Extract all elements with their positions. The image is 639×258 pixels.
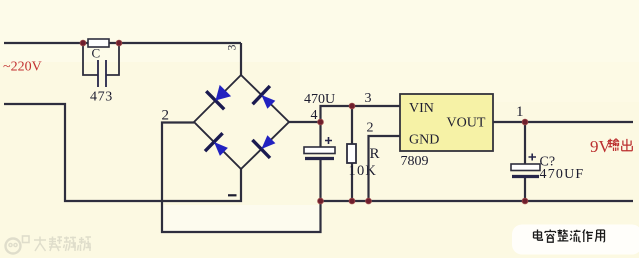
wire: bottom lead [351,163,353,201]
junction dot [349,103,355,109]
glyph 用 [595,230,604,242]
watermark logo [6,236,92,254]
svg-text:GND: GND [409,133,439,148]
svg-text:9V: 9V [590,137,612,156]
resistor R 10K [347,106,380,201]
wire: node 4 up to VIN pin [321,106,401,122]
junction dot [366,198,372,204]
negative plate [305,157,334,160]
body [347,144,356,163]
wire: node 2 branch to ground rail [162,123,321,233]
regulator U1 7809 [400,94,493,169]
junction dot [80,40,86,46]
positive plate [304,147,335,154]
series body rectangle [88,39,109,47]
glyph 出 [622,139,633,151]
wire: bridge AC top lead [240,43,242,75]
glyph 流 [570,230,581,242]
svg-text:470UF: 470UF [540,167,585,182]
svg-text:~220V: ~220V [3,60,42,75]
positive plate [511,164,540,171]
junction dot [116,40,122,46]
pin label 1 (bridge bottom, rotated digit shown as dash) [228,194,237,196]
capacitor C2 470U (electrolytic) [304,122,335,201]
diode D2 (top-right edge) [253,86,276,109]
plus mark [325,137,332,144]
wire: right drop from junction [106,43,119,75]
wire: bridge edge top-left [194,75,241,122]
junction dot [318,119,324,125]
diode D3 (bottom-left edge) [205,133,228,156]
svg-text:VOUT: VOUT [447,116,486,131]
svg-text:470U: 470U [304,92,335,107]
junction dot [522,119,528,125]
svg-text:R: R [370,146,380,162]
label 9V output (red) [590,137,632,156]
glyph 容 [545,230,556,243]
wire: GND pin to ground rail [369,136,401,201]
wire: VOUT output rail [493,121,633,123]
wire: AC neutral path to bridge bottom [4,104,241,201]
capacitor plates [98,60,106,87]
svg-text:7809: 7809 [401,154,429,169]
svg-text:3: 3 [227,44,239,50]
svg-text:2: 2 [367,121,374,136]
wire: ground rail [321,200,634,202]
glyph 作 [583,230,593,243]
diode D4 (bottom-right edge) [252,135,275,158]
glyph 整 [558,230,569,241]
diode D1 (top-left edge) [206,85,231,109]
svg-text:4: 4 [311,108,318,123]
wire: AC live top rail [4,42,241,44]
wire: bridge edge bottom-right [241,122,289,169]
wire: bridge edge bottom-left [194,122,241,169]
plus mark [529,154,537,161]
caption badge 电容整流作用 [512,225,639,255]
svg-text:C: C [92,46,101,61]
wire: top lead [351,106,353,144]
junction dot [318,198,324,204]
glyph 电 [534,230,543,241]
junction dot [522,198,528,204]
wire: top lead [319,122,321,147]
wire: top lead [524,122,526,164]
svg-text:10K: 10K [349,163,378,179]
wire: bottom lead [524,178,526,201]
capacitor C 473 (line filter network) [83,39,119,105]
junction dot [349,198,355,204]
svg-text:3: 3 [365,91,372,106]
wire: bottom lead [319,160,321,201]
glyph 输 [608,139,619,151]
wire: node 4 from bridge right vertex [289,121,321,123]
svg-text:473: 473 [90,90,113,105]
wire: left drop from junction [83,43,98,75]
svg-text:2: 2 [162,108,170,124]
capacitor C3 C? 470UF (output electrolytic) [511,122,584,201]
svg-text:VIN: VIN [409,101,434,116]
svg-text:1: 1 [516,104,524,120]
watermark text 大敢跨境 [34,237,91,252]
wire: bridge edge top-right [241,75,289,122]
negative plate [512,175,539,178]
